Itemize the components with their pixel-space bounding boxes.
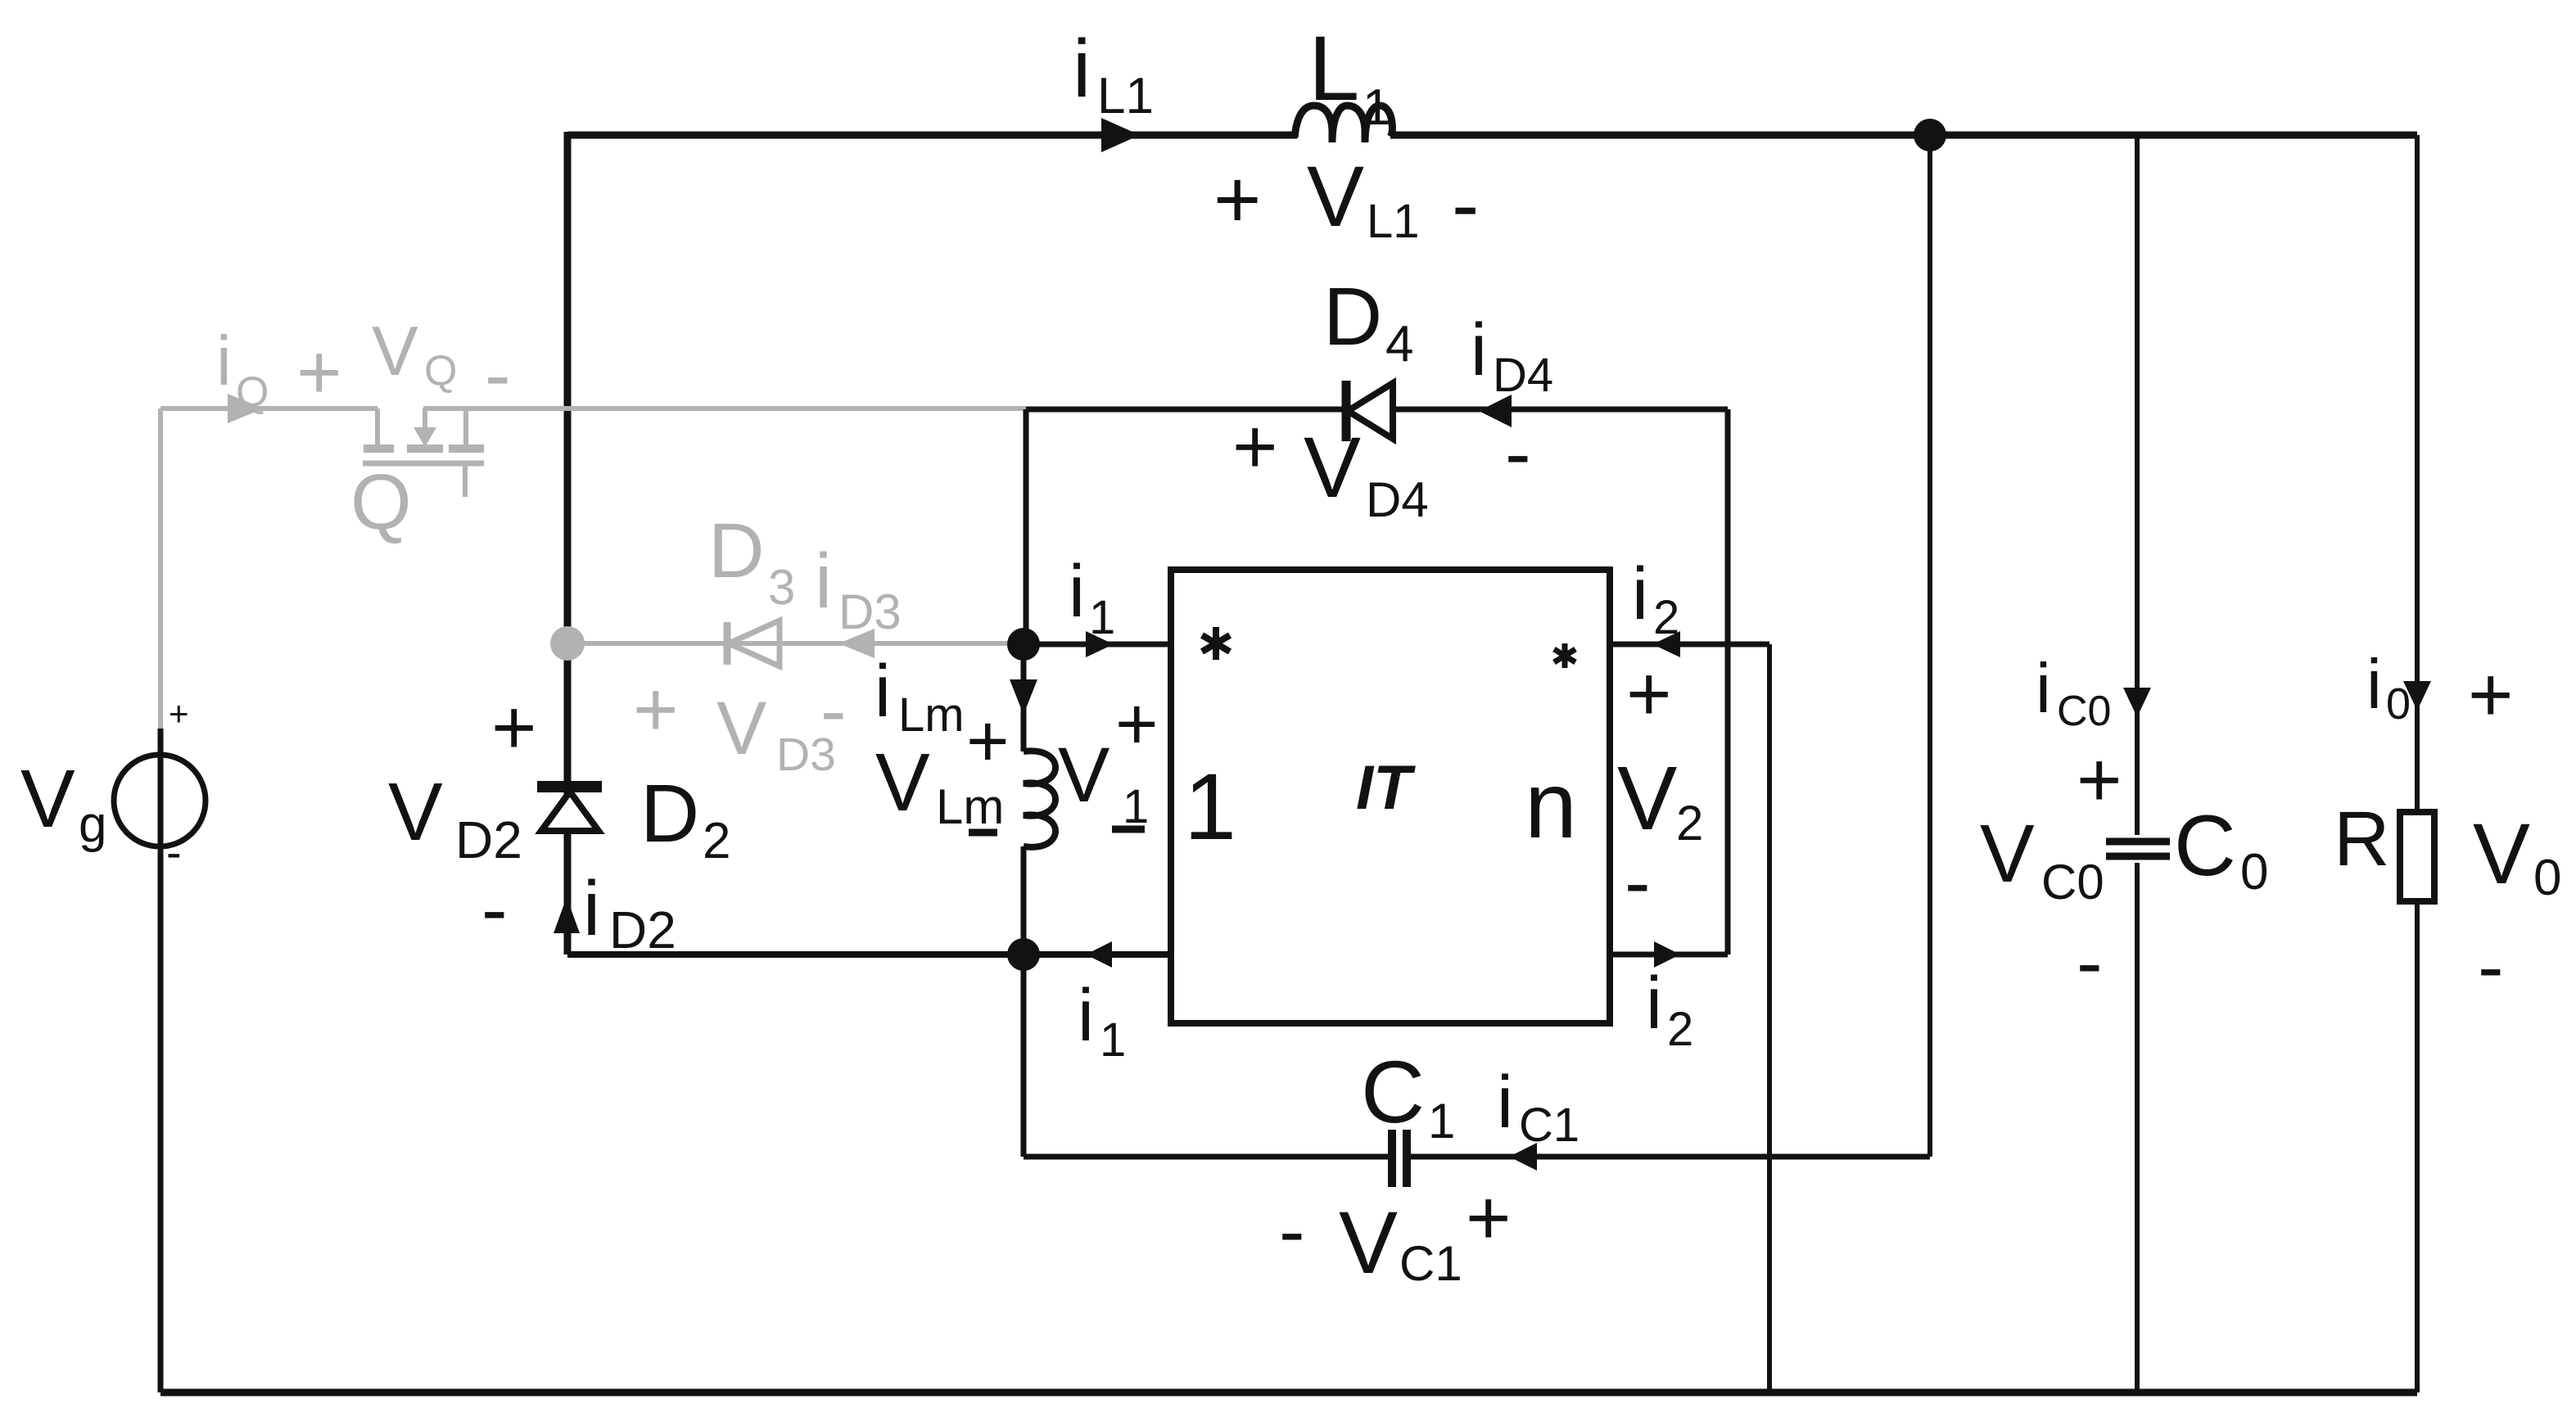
- diode D3: [727, 621, 780, 666]
- svg-text:n: n: [1525, 753, 1577, 858]
- svg-text:i: i: [815, 538, 832, 625]
- svg-text:i: i: [216, 323, 232, 400]
- wire: i2 bottom: [1610, 952, 1728, 958]
- arrow iD2: [554, 897, 580, 933]
- svg-text:V: V: [2473, 806, 2530, 902]
- inductor L1: [1295, 106, 1392, 142]
- svg-text:2: 2: [1676, 796, 1703, 851]
- svg-text:V: V: [1058, 732, 1109, 819]
- svg-text:D3: D3: [838, 584, 902, 639]
- wire: Q branch grey: [160, 406, 1026, 411]
- svg-text:0: 0: [2386, 679, 2411, 729]
- svg-text:Lm: Lm: [936, 779, 1004, 834]
- resistor R: [2415, 135, 2420, 1392]
- svg-text:L: L: [1308, 17, 1359, 120]
- svg-text:+: +: [491, 684, 536, 771]
- svg-text:-: -: [820, 667, 847, 754]
- svg-text:V: V: [1307, 149, 1364, 245]
- svg-text:V: V: [1617, 748, 1677, 849]
- svg-text:+: +: [1213, 154, 1261, 246]
- svg-text:Q: Q: [350, 458, 412, 546]
- svg-text:-: -: [1279, 1188, 1305, 1275]
- arrow i0: [2403, 681, 2431, 711]
- svg-text:0: 0: [2533, 850, 2561, 906]
- svg-text:-: -: [481, 866, 508, 953]
- arrow iLm: [1010, 679, 1037, 715]
- wire: i2 top: [1610, 642, 1769, 648]
- svg-text:V: V: [875, 737, 930, 828]
- svg-text:-: -: [1625, 839, 1651, 926]
- svg-text:g: g: [79, 796, 106, 853]
- svg-text:1: 1: [1100, 1013, 1126, 1067]
- svg-text:i: i: [2366, 646, 2382, 724]
- label star secondary: [1554, 643, 1575, 668]
- capacitor C1: [1024, 1154, 1930, 1160]
- svg-text:4: 4: [1385, 316, 1413, 372]
- svg-text:3: 3: [768, 560, 795, 615]
- svg-text:V: V: [716, 687, 766, 770]
- svg-text:V: V: [20, 753, 75, 845]
- junction node top right: [1914, 119, 1946, 151]
- voltage source Vg: [114, 755, 206, 846]
- wire: D4 loop right vertical: [1725, 409, 1731, 954]
- svg-text:IT: IT: [1356, 753, 1416, 823]
- wire: bottom i1: [567, 951, 1171, 958]
- node A primary top: [1007, 628, 1040, 661]
- svg-text:i: i: [583, 865, 600, 952]
- svg-text:i: i: [874, 651, 891, 733]
- svg-text:D: D: [640, 768, 699, 860]
- arrow iC0: [2123, 688, 2151, 717]
- wire: secondary down vertical: [1767, 644, 1772, 1392]
- svg-text:C1: C1: [1399, 1236, 1462, 1291]
- svg-text:D: D: [708, 508, 765, 594]
- node B primary bottom: [1007, 938, 1040, 971]
- arrow iC1: [1509, 1143, 1537, 1171]
- svg-text:D: D: [1323, 271, 1382, 363]
- transistor Q (MOSFET): [363, 408, 484, 497]
- svg-text:C: C: [1361, 1042, 1425, 1141]
- wire: top rail: [567, 132, 2417, 139]
- svg-text:C1: C1: [1519, 1099, 1579, 1152]
- svg-text:D4: D4: [1493, 349, 1553, 402]
- wire: C1 left vertical: [1021, 954, 1027, 1157]
- svg-text:-: -: [2478, 923, 2504, 1010]
- svg-text:V: V: [1304, 420, 1361, 516]
- svg-text:-: -: [1452, 159, 1479, 250]
- arrow i1: [1086, 631, 1114, 657]
- wire: D4 loop left vertical: [1024, 409, 1029, 644]
- svg-text:+: +: [633, 666, 678, 753]
- svg-text:C: C: [2174, 798, 2236, 894]
- svg-text:-: -: [166, 826, 182, 878]
- svg-text:Q: Q: [236, 368, 269, 416]
- svg-text:1: 1: [1428, 1094, 1455, 1148]
- label star primary: [1202, 627, 1230, 660]
- arrow iL1: [1101, 118, 1140, 152]
- svg-text:i: i: [1497, 1062, 1513, 1144]
- svg-text:-: -: [2077, 919, 2103, 1006]
- svg-text:+: +: [1626, 651, 1671, 738]
- wire: C1 right vertical: [1927, 135, 1932, 1157]
- wire: Vg branch grey upper: [158, 408, 163, 729]
- diode D2: [537, 787, 602, 831]
- svg-text:V: V: [388, 766, 443, 858]
- svg-text:1: 1: [1363, 79, 1390, 136]
- svg-text:V: V: [372, 313, 418, 390]
- arrow iQ: [228, 394, 264, 423]
- svg-text:1: 1: [1184, 755, 1236, 860]
- svg-text:-: -: [1505, 410, 1531, 497]
- svg-text:1: 1: [1123, 780, 1149, 833]
- inductor Lm: [1021, 644, 1027, 954]
- arrow i2 bottom: [1654, 941, 1680, 968]
- capacitor C0: [2135, 135, 2140, 1392]
- svg-text:i: i: [1632, 553, 1648, 635]
- svg-text:D4: D4: [1366, 472, 1429, 527]
- svg-text:V: V: [1339, 1193, 1398, 1292]
- svg-text:2: 2: [703, 813, 730, 869]
- svg-text:i: i: [1073, 23, 1091, 115]
- arrow i2: [1652, 631, 1680, 657]
- node: grey junction: [550, 626, 585, 661]
- svg-text:-: -: [485, 332, 511, 418]
- svg-text:+: +: [2468, 652, 2513, 738]
- wire: bottom rail: [160, 1389, 2417, 1397]
- svg-text:+: +: [1115, 684, 1159, 765]
- svg-text:V: V: [1980, 808, 2035, 900]
- svg-text:1: 1: [1089, 591, 1115, 644]
- svg-text:0: 0: [2240, 844, 2268, 900]
- svg-text:i: i: [1471, 309, 1487, 391]
- svg-text:C0: C0: [2057, 688, 2111, 735]
- svg-text:i: i: [2036, 650, 2051, 728]
- wire: left vertical: [564, 132, 572, 954]
- wire: i1 top: [1024, 642, 1171, 648]
- svg-text:+: +: [2077, 737, 2122, 824]
- svg-text:D2: D2: [609, 900, 676, 959]
- svg-text:L1: L1: [1367, 195, 1420, 248]
- svg-text:2: 2: [1653, 591, 1679, 644]
- svg-text:+: +: [169, 694, 189, 733]
- svg-text:D2: D2: [455, 810, 522, 869]
- svg-text:+: +: [1466, 1175, 1511, 1261]
- svg-text:L1: L1: [1097, 68, 1154, 124]
- wire: D4 top: [1026, 407, 1728, 413]
- diode D4: [1346, 381, 1393, 441]
- svg-text:i: i: [1646, 963, 1662, 1045]
- svg-text:+: +: [296, 329, 341, 416]
- transformer IT: [1171, 570, 1610, 1023]
- svg-text:i: i: [1078, 975, 1094, 1057]
- svg-text:Lm: Lm: [898, 688, 965, 742]
- svg-text:Q: Q: [424, 347, 457, 395]
- svg-text:+: +: [1232, 404, 1277, 490]
- arrow iD4: [1479, 395, 1512, 427]
- wire: D3 branch grey: [567, 641, 1024, 646]
- arrow i1 bottom: [1086, 941, 1112, 968]
- wire: Vg branch black lower: [158, 729, 164, 1392]
- svg-text:2: 2: [1667, 1003, 1693, 1056]
- svg-text:i: i: [1069, 551, 1085, 633]
- arrow iD3: [838, 629, 874, 658]
- svg-text:R: R: [2334, 796, 2390, 882]
- svg-text:C0: C0: [2041, 855, 2104, 909]
- svg-text:+: +: [966, 701, 1010, 783]
